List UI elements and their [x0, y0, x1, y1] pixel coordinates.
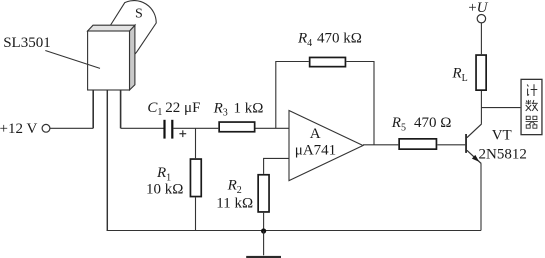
wire: op-amp output to R5 [363, 144, 398, 146]
counter glyph shu [526, 100, 538, 111]
junction node dot [261, 228, 266, 233]
wire: R1 top lead [195, 128, 197, 158]
bottom ground rail [107, 230, 481, 232]
transistor emitter diagonal [467, 150, 481, 163]
svg-text:+U: +U [468, 0, 488, 16]
wire: RL top to +U terminal [480, 23, 482, 54]
+U terminal [477, 15, 485, 23]
wire: collector up to node [480, 91, 482, 124]
wire: node to counter box [481, 107, 520, 109]
wire: terminal to leg1 [50, 127, 93, 129]
wire: R3 to op-amp inverting input [256, 127, 290, 129]
transistor VT base bar [465, 134, 467, 153]
ground bar [246, 256, 281, 258]
svg-text:R5470 Ω: R5470 Ω [391, 115, 452, 133]
resistor RL [476, 55, 486, 90]
resistor R3 [219, 122, 255, 132]
sensor leg 3 [120, 90, 122, 128]
feedback wire left vertical [276, 62, 309, 129]
C1 polarity plus [179, 130, 186, 137]
sensor leg 2 [106, 90, 108, 231]
wire: R5 to base [437, 144, 465, 146]
svg-text:11 kΩ: 11 kΩ [216, 196, 253, 212]
wire: emitter down to ground rail [480, 164, 482, 231]
capacitor C1 [163, 120, 173, 139]
counter box [521, 79, 542, 134]
resistor R5 [399, 139, 436, 149]
svg-text:2N5812: 2N5812 [479, 146, 527, 162]
sensor leg 1 [92, 90, 94, 128]
resistor R4 [310, 57, 346, 66]
counter glyph qi [526, 116, 538, 128]
wire: C1 to R3 [173, 127, 218, 129]
svg-text:VT: VT [492, 128, 512, 144]
sensor SL3501 package [88, 25, 135, 90]
svg-text:R4470 kΩ: R4470 kΩ [297, 31, 362, 49]
emitter arrowhead [472, 155, 479, 162]
op-amp U1 [289, 111, 363, 181]
svg-text:+12 V: +12 V [0, 121, 37, 137]
svg-text:μA741: μA741 [295, 143, 336, 159]
magnet S capsule [104, 1, 156, 60]
resistor R2 [258, 175, 269, 212]
svg-text:SL3501: SL3501 [3, 35, 51, 51]
wire: R2 top lead to non-inverting input [264, 158, 289, 174]
feedback wire right vertical [346, 62, 374, 145]
counter glyph ji [527, 84, 537, 96]
svg-text:10 kΩ: 10 kΩ [146, 182, 183, 198]
svg-text:S: S [135, 6, 143, 21]
wire: leg3 to C1 [121, 127, 164, 129]
sensor pointer line [45, 51, 100, 69]
resistor R1 [190, 159, 201, 197]
svg-text:A: A [310, 126, 321, 142]
svg-text:R31 kΩ: R31 kΩ [213, 100, 264, 118]
svg-text:C122 μF: C122 μF [147, 100, 200, 118]
wire: R2 bottom lead [263, 213, 265, 231]
transistor collector diagonal [467, 124, 482, 138]
wire: R1 bottom lead [195, 197, 197, 230]
ground stem [263, 231, 265, 255]
